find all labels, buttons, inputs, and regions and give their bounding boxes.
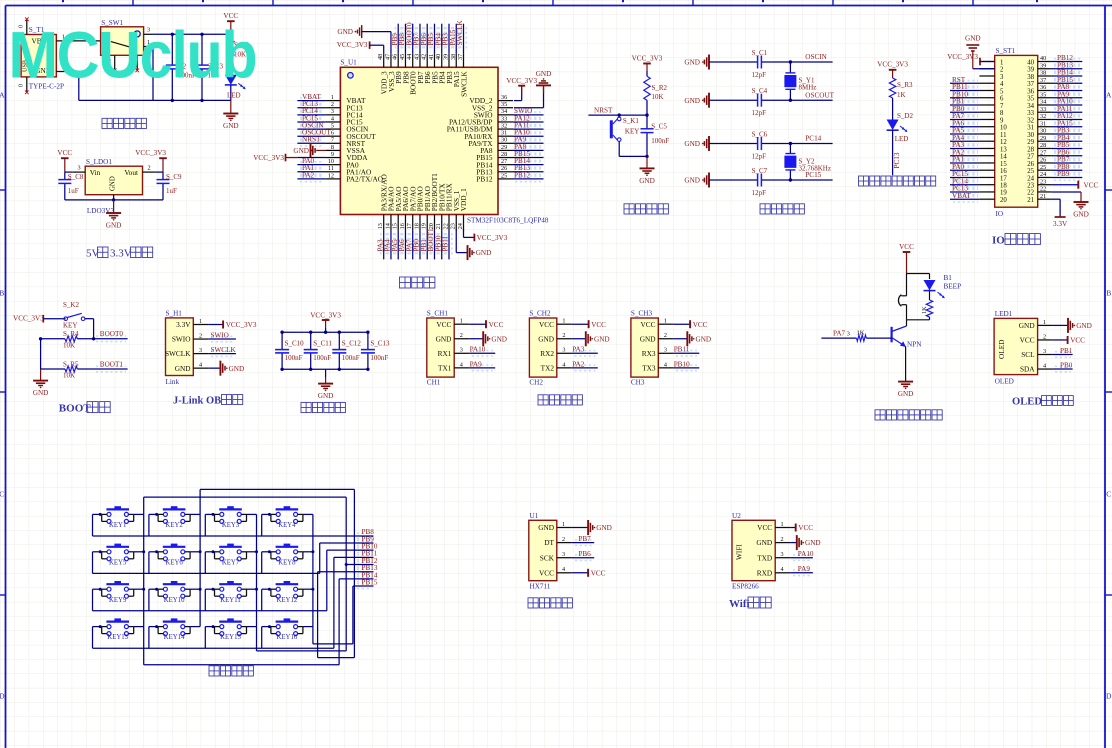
svg-text:Vout: Vout [124,168,138,177]
svg-text:C: C [1106,490,1111,499]
svg-text:23: 23 [450,223,457,229]
svg-text:PB10: PB10 [674,360,690,368]
svg-text:C: C [0,490,4,499]
svg-text:3: 3 [781,551,784,558]
svg-text:35: 35 [1040,91,1046,98]
svg-text:LED: LED [227,92,241,100]
svg-text:100nF: 100nF [651,137,669,145]
svg-text:VCC_3V3: VCC_3V3 [506,77,537,85]
svg-text:VCC_3V3: VCC_3V3 [877,61,908,69]
svg-text:CH1: CH1 [427,379,441,387]
svg-text:28: 28 [501,151,507,158]
svg-text:KEY12: KEY12 [277,597,298,604]
svg-text:TX2: TX2 [541,363,555,372]
svg-text:PA10: PA10 [798,550,814,558]
svg-text:STM32F103C8T6_LQFP48: STM32F103C8T6_LQFP48 [467,216,549,224]
svg-text:14: 14 [1000,154,1007,161]
svg-text:2: 2 [1043,333,1046,340]
svg-text:S_CH1: S_CH1 [427,310,449,318]
svg-text:10K: 10K [63,342,75,350]
svg-text:S_CH2: S_CH2 [529,310,551,318]
svg-text:SWCLK: SWCLK [211,346,237,354]
svg-text:KEY5: KEY5 [109,559,127,566]
svg-text:13: 13 [1000,146,1007,153]
svg-text:35: 35 [1027,96,1034,103]
svg-text:32: 32 [1040,113,1046,120]
svg-text:D: D [0,692,5,701]
svg-text:GND: GND [337,28,353,36]
svg-text:26: 26 [1027,161,1034,168]
svg-text:VCC: VCC [899,243,914,251]
svg-text:D: D [1106,692,1112,701]
svg-text:GND: GND [536,70,552,78]
svg-text:3: 3 [331,108,334,115]
svg-text:29: 29 [1040,135,1046,142]
svg-text:32: 32 [501,122,507,129]
svg-text:2: 2 [199,332,202,339]
svg-text:CH2: CH2 [529,379,543,387]
svg-text:39: 39 [1040,62,1046,69]
svg-text:S_R2: S_R2 [652,84,668,92]
svg-text:OSCOUT: OSCOUT [805,91,834,99]
svg-text:10: 10 [328,158,334,165]
svg-text:GND: GND [538,334,554,343]
svg-text:1: 1 [664,318,667,325]
svg-text:BOOT0: BOOT0 [100,330,124,338]
svg-text:VCC: VCC [489,321,504,329]
svg-text:12: 12 [1000,139,1007,146]
svg-text:1: 1 [331,94,334,101]
svg-text:U1: U1 [530,512,539,520]
svg-text:VCC_3V3: VCC_3V3 [947,53,978,61]
svg-text:KEY16: KEY16 [277,634,298,641]
svg-text:PB1: PB1 [1060,347,1073,355]
svg-text:30: 30 [1040,128,1046,135]
svg-text:40: 40 [1027,59,1034,66]
svg-text:KEY3: KEY3 [222,522,240,529]
svg-text:24: 24 [1040,171,1046,178]
svg-text:20: 20 [1000,197,1007,204]
svg-text:PB12: PB12 [514,171,530,179]
svg-text:2: 2 [460,332,463,339]
svg-text:VCC: VCC [591,321,606,329]
svg-text:100nF: 100nF [313,354,331,362]
svg-text:B: B [0,289,4,298]
svg-text:37: 37 [457,54,464,60]
svg-text:42: 42 [421,54,428,60]
svg-text:34: 34 [1027,103,1034,110]
svg-text:KEY14: KEY14 [164,634,185,641]
svg-text:BEEP: BEEP [944,283,962,291]
svg-text:1K: 1K [921,306,928,314]
svg-text:VCC: VCC [640,320,655,329]
svg-text:S_C7: S_C7 [752,167,768,175]
svg-text:3.3V: 3.3V [1053,220,1068,228]
svg-text:PB11: PB11 [442,235,450,251]
svg-text:SWCLK: SWCLK [459,71,468,97]
svg-text:46: 46 [392,54,399,60]
svg-text:IO: IO [996,210,1004,218]
svg-text:10: 10 [1000,125,1007,132]
svg-text:4: 4 [781,566,784,573]
svg-text:1: 1 [460,318,463,325]
svg-text:BOOT: BOOT [59,403,91,415]
svg-text:S_C11: S_C11 [313,340,332,348]
svg-text:47: 47 [384,54,391,60]
svg-text:23: 23 [1027,182,1034,189]
svg-text:VCC_3V3: VCC_3V3 [310,311,341,319]
svg-text:11: 11 [328,165,334,172]
svg-text:KEY1: KEY1 [109,522,126,529]
svg-text:6: 6 [1000,96,1004,103]
svg-text:GND: GND [175,364,191,373]
svg-text:KEY6: KEY6 [165,559,183,566]
svg-text:8: 8 [1000,110,1004,117]
svg-text:37: 37 [1040,77,1046,84]
svg-text:KEY2: KEY2 [165,522,183,529]
svg-text:KEY8: KEY8 [278,559,296,566]
svg-text:GND: GND [110,176,117,191]
svg-text:GND: GND [1019,321,1035,330]
svg-text:12pF: 12pF [752,71,767,79]
svg-text:S_U1: S_U1 [340,58,357,66]
svg-text:PB9: PB9 [1057,170,1070,178]
svg-text:1: 1 [781,521,784,528]
svg-text:OLED: OLED [997,340,1006,359]
svg-text:PA7: PA7 [833,330,846,338]
svg-text:GND: GND [639,177,655,185]
svg-text:KEY13: KEY13 [107,634,128,641]
svg-text:KEY: KEY [625,128,639,136]
svg-text:9: 9 [1000,117,1004,124]
svg-text:VCC_3V3: VCC_3V3 [253,154,284,162]
svg-text:38: 38 [1040,70,1046,77]
svg-text:SWCLK: SWCLK [456,20,464,46]
svg-text:28: 28 [1027,146,1034,153]
svg-text:VCC: VCC [693,321,708,329]
svg-text:RX1: RX1 [438,349,452,358]
svg-text:30: 30 [1027,132,1034,139]
svg-text:7: 7 [1000,103,1004,110]
svg-text:3: 3 [78,165,81,172]
svg-text:TX1: TX1 [438,363,452,372]
svg-text:GND: GND [476,249,492,257]
svg-text:S_D2: S_D2 [897,112,913,120]
svg-text:9: 9 [331,151,334,158]
svg-text:33: 33 [1027,110,1034,117]
svg-text:LED1: LED1 [995,310,1013,318]
svg-text:PA2: PA2 [572,360,585,368]
svg-text:36: 36 [1040,84,1046,91]
svg-text:21: 21 [1027,197,1034,204]
svg-text:BOOT1: BOOT1 [100,360,124,368]
svg-text:VCC: VCC [798,524,813,532]
svg-text:GND: GND [318,392,334,400]
svg-text:1uF: 1uF [166,187,177,195]
svg-text:SCL: SCL [1021,350,1035,359]
svg-text:S_C5: S_C5 [651,123,667,131]
svg-text:17: 17 [406,223,413,229]
svg-text:VCC: VCC [539,568,554,577]
svg-text:43: 43 [413,54,420,60]
svg-text:2: 2 [562,332,565,339]
svg-text:15: 15 [1000,161,1007,168]
svg-text:1: 1 [562,521,565,528]
svg-text:22: 22 [1027,190,1034,197]
svg-text:GND: GND [965,34,981,42]
svg-text:45: 45 [399,54,406,60]
svg-text:B: B [1106,289,1111,298]
svg-text:17: 17 [1000,175,1007,182]
svg-text:25: 25 [1040,164,1046,171]
svg-text:16: 16 [1000,168,1007,175]
svg-text:36: 36 [501,94,507,101]
svg-text:S_H1: S_H1 [166,310,183,318]
svg-text:21: 21 [435,223,442,229]
svg-text:DT: DT [544,538,554,547]
svg-text:KEY9: KEY9 [109,597,127,604]
svg-text:A: A [0,91,5,100]
svg-text:NPN: NPN [907,341,922,349]
svg-text:VCC: VCC [1084,181,1099,189]
svg-text:21: 21 [1040,193,1046,200]
svg-text:VCC: VCC [539,320,554,329]
svg-text:OLED: OLED [1012,396,1042,407]
svg-text:38: 38 [450,54,457,60]
svg-text:TX3: TX3 [642,363,656,372]
svg-text:SCK: SCK [540,553,555,562]
svg-text:40: 40 [435,54,442,60]
svg-text:11: 11 [1000,132,1007,139]
svg-text:100nF: 100nF [370,354,388,362]
svg-text:A: A [1106,91,1112,100]
svg-text:KEY7: KEY7 [222,559,240,566]
svg-text:Wifi: Wifi [729,598,750,610]
svg-text:3: 3 [562,347,565,354]
svg-text:SDA: SDA [1020,365,1035,374]
svg-text:27: 27 [1027,154,1034,161]
svg-text:22: 22 [442,223,449,229]
svg-text:GND: GND [436,334,452,343]
svg-text:2: 2 [562,536,565,543]
svg-text:GND: GND [106,222,122,230]
svg-text:GND: GND [898,390,914,398]
svg-text:48: 48 [377,54,384,60]
svg-text:PB12: PB12 [476,174,493,183]
svg-text:S_R5: S_R5 [63,360,79,368]
svg-text:PA2: PA2 [302,171,315,179]
svg-text:WIFI: WIFI [735,544,744,560]
svg-text:S_R3: S_R3 [897,81,913,89]
svg-text:VCC_3V3: VCC_3V3 [337,41,368,49]
svg-text:8MHz: 8MHz [799,84,817,92]
svg-text:13: 13 [377,223,384,229]
svg-text:VBAT: VBAT [952,192,971,200]
svg-text:VCC_3V3: VCC_3V3 [632,54,663,62]
svg-text:VCC: VCC [757,523,772,532]
svg-text:18: 18 [1000,182,1007,189]
svg-text:4: 4 [562,566,565,573]
svg-text:GND: GND [223,122,239,130]
svg-text:KEY: KEY [63,322,77,330]
svg-text:7: 7 [331,137,334,144]
svg-text:GND: GND [756,538,772,547]
svg-text:GND: GND [684,97,700,105]
svg-text:VCC: VCC [1020,336,1035,345]
svg-text:SWIO: SWIO [172,335,191,344]
svg-text:29: 29 [501,144,507,151]
svg-text:39: 39 [442,54,449,60]
svg-text:39: 39 [1027,67,1034,74]
svg-text:25: 25 [1027,168,1034,175]
svg-text:32: 32 [1027,117,1034,124]
svg-text:S_R4: S_R4 [63,330,79,338]
svg-text:OSCIN: OSCIN [805,53,827,61]
svg-text:31: 31 [1040,120,1046,127]
svg-text:VCC_3V3: VCC_3V3 [477,234,508,242]
svg-text:3: 3 [664,347,667,354]
svg-text:NRST: NRST [594,107,613,115]
svg-text:100nF: 100nF [342,354,360,362]
svg-text:12pF: 12pF [752,189,767,197]
svg-text:GND: GND [684,177,700,185]
svg-text:GND: GND [805,539,821,547]
svg-text:31: 31 [501,130,507,137]
svg-text:3: 3 [460,347,463,354]
svg-text:27: 27 [501,158,507,165]
svg-text:4: 4 [1043,362,1046,369]
svg-text:23: 23 [1040,178,1046,185]
svg-text:1: 1 [1000,59,1003,66]
svg-text:3.3V: 3.3V [176,320,191,329]
svg-text:30: 30 [501,137,507,144]
svg-text:12pF: 12pF [752,153,767,161]
svg-text:8: 8 [331,144,334,151]
svg-text:18: 18 [413,223,420,229]
svg-text:GND: GND [491,335,507,343]
svg-text:10K: 10K [652,93,664,101]
svg-text:26: 26 [1040,157,1046,164]
svg-text:2: 2 [781,536,784,543]
svg-text:S_K2: S_K2 [63,301,79,309]
svg-text:GND: GND [1073,211,1089,219]
svg-text:4: 4 [664,361,667,368]
svg-text:3: 3 [1000,74,1004,81]
svg-text:4: 4 [1000,81,1004,88]
svg-text:VCC_3V3: VCC_3V3 [13,315,44,323]
svg-text:1: 1 [1043,319,1046,326]
svg-text:GND: GND [594,335,610,343]
svg-text:S_C8: S_C8 [68,173,84,181]
svg-text:LED: LED [895,135,909,143]
svg-text:1uF: 1uF [68,187,79,195]
svg-text:VCC_3V3: VCC_3V3 [226,321,257,329]
svg-text:36: 36 [1027,88,1034,95]
svg-text:31: 31 [1027,125,1034,132]
svg-text:2: 2 [331,101,334,108]
svg-text:32.768KHz: 32.768KHz [799,165,831,173]
svg-text:S_C4: S_C4 [752,87,768,95]
svg-text:S_C6: S_C6 [752,131,768,139]
svg-text:40: 40 [1040,55,1046,62]
svg-text:GND: GND [538,523,554,532]
svg-text:VCC: VCC [436,320,451,329]
svg-text:5: 5 [1000,88,1004,95]
svg-text:34: 34 [1040,99,1046,106]
svg-text:14: 14 [384,223,391,229]
svg-text:PB0: PB0 [1060,361,1073,369]
svg-text:CH3: CH3 [631,379,645,387]
svg-text:PB11: PB11 [674,346,690,354]
svg-text:PB15: PB15 [362,578,378,586]
svg-text:HX711: HX711 [530,583,551,591]
svg-text:Link: Link [166,378,180,386]
svg-text:VCC: VCC [57,149,72,157]
svg-text:24: 24 [457,223,464,229]
svg-text:S_CH3: S_CH3 [631,310,653,318]
svg-text:NRST: NRST [302,136,321,144]
svg-text:4: 4 [562,361,565,368]
svg-text:2: 2 [1000,67,1004,74]
svg-text:1K: 1K [897,91,906,99]
svg-text:RX2: RX2 [540,349,554,358]
svg-text:3: 3 [847,331,850,338]
svg-text:PC13: PC13 [893,152,901,168]
svg-text:Vin: Vin [90,168,101,177]
svg-text:4: 4 [331,115,334,122]
svg-text:S_C10: S_C10 [285,340,305,348]
svg-text:29: 29 [1027,139,1034,146]
svg-text:KEY10: KEY10 [164,597,185,604]
svg-text:KEY11: KEY11 [220,597,241,604]
svg-text:3: 3 [1043,348,1046,355]
svg-text:PB6: PB6 [578,550,591,558]
svg-text:S_C9: S_C9 [166,173,182,181]
svg-text:6: 6 [331,130,334,137]
svg-text:S_LDO1: S_LDO1 [86,158,112,166]
svg-text:GND: GND [33,389,49,397]
svg-text:S_C1: S_C1 [752,49,768,57]
svg-text:3: 3 [562,551,565,558]
svg-text:3: 3 [199,347,202,354]
svg-text:VCC: VCC [1070,337,1085,345]
svg-text:MCUclub: MCUclub [9,19,257,93]
svg-text:1: 1 [562,318,565,325]
svg-text:S_ST1: S_ST1 [996,47,1016,55]
svg-text:12: 12 [328,172,334,179]
svg-text:38: 38 [1027,74,1034,81]
svg-text:TXD: TXD [757,553,772,562]
svg-text:GND: GND [229,365,245,373]
svg-text:SWIO: SWIO [211,331,229,339]
svg-text:PA2/TX/AO: PA2/TX/AO [346,174,383,183]
svg-text:100nF: 100nF [285,354,303,362]
svg-text:GND: GND [1076,322,1092,330]
svg-text:SWCLK: SWCLK [165,349,191,358]
svg-text:KEY4: KEY4 [278,522,296,529]
svg-text:33: 33 [1040,106,1046,113]
svg-text:24: 24 [1027,175,1034,182]
svg-text:16: 16 [399,223,406,229]
svg-text:26: 26 [501,165,507,172]
svg-text:S_C13: S_C13 [370,340,390,348]
svg-text:OLED: OLED [995,377,1014,385]
svg-text:35: 35 [501,101,507,108]
svg-text:PB7: PB7 [578,535,591,543]
svg-text:KEY15: KEY15 [220,634,241,641]
svg-text:GND: GND [293,147,309,155]
svg-text:33: 33 [501,115,507,122]
